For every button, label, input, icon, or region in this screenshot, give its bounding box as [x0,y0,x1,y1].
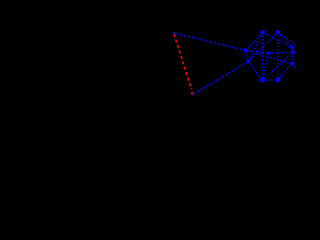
wire: edge P4-P5 [248,61,262,80]
wire: blue dotted edge A-P3 [175,33,246,50]
wire: edge P1-P5 [261,32,263,80]
wire: edge P6-P9 [278,64,292,80]
node P3 [243,48,247,52]
wire: edge P10-P5 [262,53,268,80]
wire: edge P3-P4 [246,50,249,61]
wire: edge P5-P6 [262,79,278,81]
wire: edge P2-P6 [277,32,279,80]
node P5 [260,78,265,83]
wire: edge P3-P9 [246,50,292,63]
wire: edge P2-P4 [248,32,277,61]
wire: blue dotted edge B-P4 [195,61,249,93]
marker triangle on edge A-P3 [192,37,195,39]
wire: edge P2-P7 [278,32,293,47]
node P2 [275,30,280,35]
wire: edge P10-P8 [269,52,293,53]
node P1 [260,30,265,35]
wire: edge P1-P7 [263,32,293,47]
wire dot beside P7 [288,46,290,48]
wire: edge P3-P10 [246,50,269,53]
wire: edge P8-P9 [291,52,294,64]
wire: edge P2-right [278,32,297,45]
wire: edge P9-right [292,64,297,70]
node P6 [275,78,280,83]
wire: edge P1-P3 [246,32,263,50]
node B [192,94,194,96]
node P4 [246,59,250,63]
node P8 [291,50,295,54]
node P10 [267,51,271,55]
node A [173,32,175,34]
wire: edge P1-P4 [248,32,262,61]
wire: edge P8-P5 [262,52,293,80]
wire: red dashed edge A-B [174,34,194,96]
node P9 [290,62,294,66]
node P7 [290,45,294,49]
